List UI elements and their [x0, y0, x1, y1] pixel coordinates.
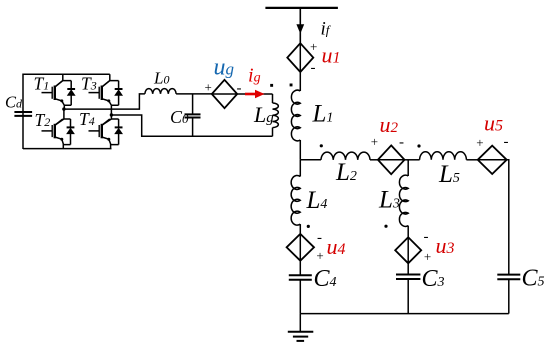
- capacitor C5: [497, 275, 520, 280]
- diode of T2: [66, 119, 75, 145]
- svg-text:T3: T3: [81, 74, 97, 94]
- svg-text:T1: T1: [34, 74, 50, 94]
- svg-text:C3: C3: [422, 266, 445, 292]
- transistor T1: [42, 81, 64, 103]
- wire: phase B output rail (bottom loop): [111, 115, 272, 136]
- bus bar (grid): [265, 7, 338, 9]
- svg-text:-: -: [311, 60, 316, 76]
- svg-text:-: -: [504, 134, 509, 150]
- diode of T1: [67, 81, 76, 106]
- svg-text:Cd: Cd: [5, 93, 23, 112]
- node B (T3/T4 midpoint): [110, 113, 113, 116]
- polarity dot of L4: [307, 225, 310, 228]
- svg-text:C0: C0: [170, 107, 189, 127]
- transistor T3: [89, 81, 111, 103]
- svg-text:+: +: [205, 80, 212, 95]
- inductor L0: [145, 89, 176, 94]
- svg-text:ug: ug: [214, 55, 235, 81]
- transistor T4: [89, 119, 111, 141]
- capacitor Cd: [14, 112, 32, 116]
- wire: bottom rail: [300, 313, 509, 315]
- svg-text:L0: L0: [153, 69, 169, 88]
- node A (T1/T2 midpoint): [62, 107, 65, 110]
- wire: T3 emitter down to phase node B: [109, 101, 119, 115]
- wire: T1 emitter / D1 anode to phase node A: [62, 101, 71, 109]
- current arrow ig (red): [245, 93, 257, 96]
- wire: ug to Lg: [237, 93, 272, 95]
- svg-text:T2: T2: [35, 110, 51, 130]
- svg-text:u2: u2: [380, 112, 399, 137]
- polarity dot of L1: [290, 84, 293, 87]
- inductor L2: [321, 152, 370, 160]
- svg-text:-: -: [399, 135, 404, 151]
- inductor L3: [399, 175, 408, 226]
- wire: node C down to L3: [407, 160, 409, 176]
- wire: u5 right down to C5: [507, 160, 509, 274]
- wire: T2 emitter to bottom rail: [62, 139, 71, 148]
- svg-text:ig: ig: [248, 65, 261, 87]
- svg-text:if: if: [321, 19, 332, 40]
- source u5 (diamond): [478, 146, 507, 174]
- svg-text:L2: L2: [335, 159, 357, 186]
- svg-text:L3: L3: [378, 187, 400, 214]
- svg-text:u5: u5: [484, 111, 503, 136]
- svg-text:u1: u1: [322, 43, 341, 68]
- svg-text:-: -: [317, 230, 322, 246]
- inductor L4: [299, 160, 301, 177]
- diode of T3: [114, 81, 123, 106]
- transistor T2: [42, 119, 64, 141]
- polarity dot of Lg: [270, 84, 273, 87]
- source u4 (diamond): [287, 234, 314, 261]
- svg-text:+: +: [316, 248, 323, 263]
- svg-text:L4: L4: [306, 187, 328, 214]
- source u1 (diamond): [287, 43, 313, 72]
- source ug (diamond): [212, 80, 237, 108]
- wire: bus down to u1: [299, 8, 301, 43]
- svg-text:C4: C4: [314, 266, 337, 292]
- inductor L5: [420, 152, 467, 160]
- inductor Lg (primary of coupled pair): [272, 94, 274, 103]
- capacitor C3: [407, 263, 409, 313]
- svg-text:T4: T4: [79, 109, 95, 129]
- svg-text:C5: C5: [522, 266, 545, 292]
- svg-text:-: -: [424, 229, 429, 245]
- svg-text:u4: u4: [327, 234, 346, 259]
- svg-text:L5: L5: [438, 161, 460, 188]
- wire: T1 collector to top rail: [55, 74, 71, 86]
- diode of T4: [114, 119, 123, 145]
- source u3 (diamond): [395, 237, 421, 263]
- capacitor C4: [299, 261, 301, 314]
- wire: T2 collector from phase node A: [55, 109, 70, 125]
- wire: L5 to u5: [466, 159, 477, 161]
- inductor L1 (secondary of coupled pair): [299, 72, 301, 91]
- wire: bridge DC bus top rail: [23, 74, 110, 149]
- polarity dot of L3: [384, 225, 387, 228]
- svg-text:+: +: [476, 135, 483, 150]
- wire: phase A output rail to L0: [64, 94, 145, 109]
- polarity dot of L2: [320, 144, 323, 147]
- svg-text:+: +: [310, 39, 317, 54]
- current arrow if: [296, 24, 304, 34]
- wire: T4 emitter to bottom rail: [109, 139, 119, 148]
- wire: u2 to node C: [405, 159, 420, 161]
- source u2 (diamond): [378, 145, 405, 174]
- wire: T4 collector from phase node B: [102, 115, 118, 125]
- svg-text:Lg: Lg: [253, 102, 274, 127]
- wire: node below L1 to L2: [300, 159, 321, 161]
- wire: T3 collector from top rail right corner: [102, 74, 118, 86]
- svg-text:+: +: [424, 249, 431, 264]
- polarity dot of L5: [417, 144, 420, 147]
- capacitor C0: [192, 94, 194, 136]
- wire: bridge bottom rail: [23, 148, 112, 150]
- svg-text:+: +: [371, 134, 378, 149]
- svg-text:L1: L1: [312, 101, 334, 128]
- ground: [288, 314, 314, 341]
- wire: L0 to ug source: [176, 93, 212, 95]
- svg-text:u3: u3: [436, 233, 455, 258]
- wire: L2 to u2: [370, 159, 378, 161]
